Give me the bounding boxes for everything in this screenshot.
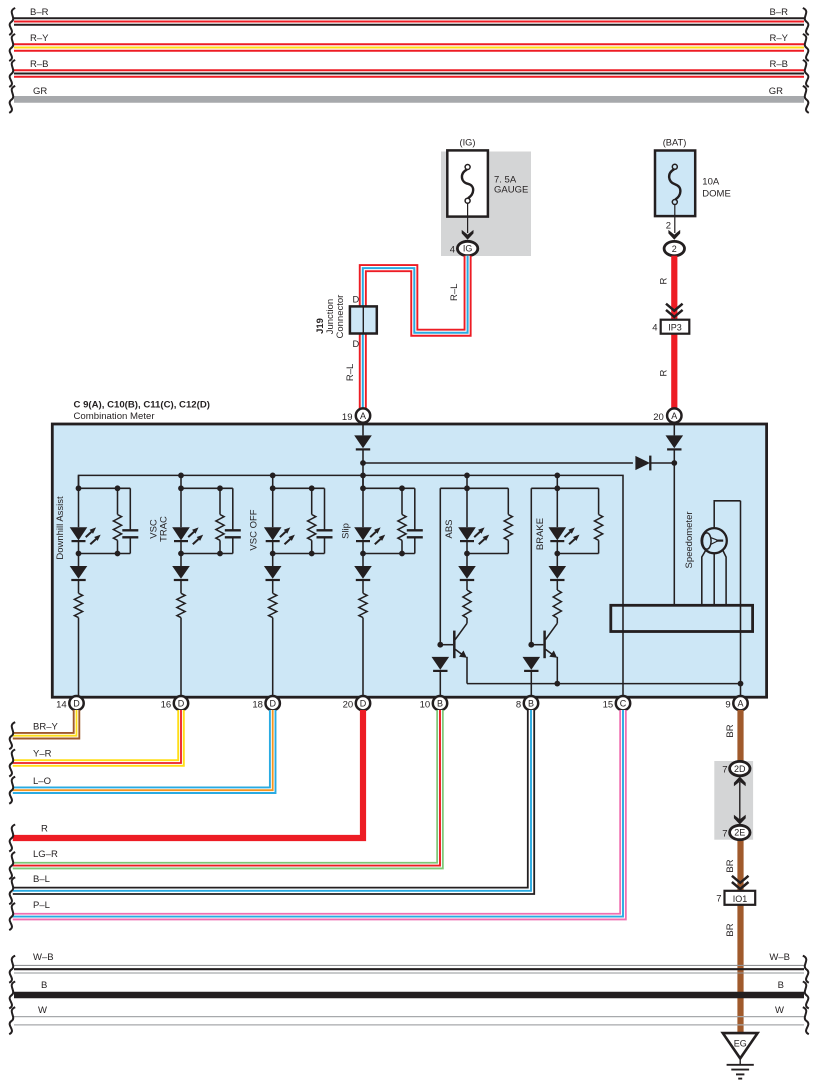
node VSC OFF tap [270,473,276,479]
svg-text:Downhill Assist: Downhill Assist [55,496,66,560]
svg-text:BRAKE: BRAKE [535,518,546,550]
pin 14 (D) [69,696,83,710]
wire B-L [13,710,531,891]
wire pin19 to bus [362,423,364,435]
connector IO1 pin 7 [725,891,756,905]
svg-text:7: 7 [722,829,727,840]
svg-text:BR: BR [725,923,736,936]
node pin9 emitter join [738,681,744,687]
indicator branch VSC TRAC [172,475,241,697]
connector IG pin 4 [457,241,477,255]
svg-text:IP3: IP3 [668,323,682,333]
svg-text:BR: BR [725,724,736,737]
wire BR from pin 9 to ground [737,710,743,1034]
diode below BRAKE base [523,657,541,671]
wire fuse to connector 2 [674,205,676,234]
wire W [14,1017,804,1025]
wire diode OR bus [363,462,633,464]
pin 15 (C) [616,696,630,710]
node pin19 tap [360,473,366,479]
svg-text:A: A [671,411,677,421]
ground EG [723,1033,758,1058]
base junction [437,642,443,648]
svg-text:2: 2 [666,221,671,232]
svg-text:B–R: B–R [770,7,789,18]
svg-text:BR–Y: BR–Y [33,721,58,732]
wire R-L from IG to pin 19 [363,256,468,409]
svg-text:(BAT): (BAT) [663,138,687,148]
speedometer wiring loop [714,501,740,528]
pin 20 (A) [667,408,681,422]
wire to pin 9 [740,501,742,697]
speedometer driver block [611,605,753,631]
svg-text:2E: 2E [734,828,745,838]
indicator branch Downhill Assist [70,475,139,697]
svg-text:D: D [352,295,359,305]
arrow into connector 2 [668,230,680,240]
pin 18 (D) [266,696,280,710]
node ABS tap [464,473,470,479]
wire L-O [13,710,273,790]
node on pin19 branch [360,460,366,466]
svg-text:10: 10 [420,700,431,711]
svg-text:EG: EG [734,1038,747,1048]
svg-text:D: D [360,698,367,708]
speedometer gauge [702,528,727,553]
svg-text:8: 8 [516,700,521,711]
wire R [13,710,363,838]
svg-text:(IG): (IG) [459,138,475,148]
node VSC TRAC tap [178,473,184,479]
ground symbol [727,1058,754,1078]
connector 2D-2E pass through block [714,761,753,840]
wire W-B [14,965,804,973]
svg-text:20: 20 [653,412,664,423]
svg-text:D: D [269,698,276,708]
speedometer leads [702,551,706,606]
node pin20 branch [671,460,677,466]
svg-text:L–O: L–O [33,776,51,787]
fuse 10A DOME holder [655,151,695,217]
connector 2D pin 7 [730,761,750,775]
wire BR-Y [13,710,77,736]
wire P-L [13,710,623,917]
svg-text:VSC OFF: VSC OFF [248,509,259,550]
svg-text:10A: 10A [702,177,720,188]
indicator branch Slip [354,475,423,697]
svg-text:R–L: R–L [345,364,356,381]
svg-text:R–Y: R–Y [770,33,789,44]
svg-text:A: A [737,698,743,708]
chevron arrows into IO1 [732,876,749,889]
connector IP3 pin 4 [661,320,690,334]
svg-text:Slip: Slip [341,523,352,539]
svg-text:IO1: IO1 [733,894,748,904]
top wire break squiggles [9,8,15,35]
node BRAKE emitter [554,681,560,687]
svg-text:A: A [360,411,366,421]
svg-text:19: 19 [342,412,353,423]
svg-text:W–B: W–B [769,952,790,963]
pin 8 (B) [524,696,538,710]
base junction [528,642,534,648]
svg-text:R: R [41,824,48,835]
wire R-B [14,69,804,77]
svg-text:18: 18 [252,700,263,711]
svg-text:B: B [41,980,47,991]
svg-text:IG: IG [463,244,473,254]
svg-text:2: 2 [672,244,677,254]
junction connector J19 [350,306,377,333]
connector 2E pin 7 [730,825,750,839]
pin 16 (D) [174,696,188,710]
connector 2 [664,241,684,255]
indicator branch VSC OFF [264,475,333,697]
pin 10 (B) [433,696,447,710]
chevron arrows into IP3 [666,304,683,317]
svg-text:GAUGE: GAUGE [494,185,528,196]
svg-text:B: B [437,698,443,708]
svg-text:C: C [620,698,627,708]
wire GR [14,96,804,103]
svg-text:B–R: B–R [30,7,49,18]
svg-text:R: R [658,369,669,376]
svg-text:Speedometer: Speedometer [684,511,695,568]
wire R from connector 2 to pin 20 [671,256,677,409]
svg-text:C 9(A), C10(B), C11(C), C12(D): C 9(A), C10(B), C11(C), C12(D) [74,400,210,411]
svg-text:R–B: R–B [30,59,48,70]
wire pin 20A down [673,423,675,435]
svg-text:DOME: DOME [702,189,731,200]
combination meter C9/C10/C11/C12 box [52,424,766,697]
svg-text:R: R [658,277,669,284]
svg-text:20: 20 [343,700,354,711]
wire fuse to IG connector [467,203,469,233]
svg-text:LG–R: LG–R [33,849,58,860]
wire B [14,992,804,999]
emitter bus to pin 9 [467,683,741,685]
diode below ABS base [432,657,450,671]
svg-text:Y–R: Y–R [33,749,52,760]
double arrow between 2D and 2E [739,782,741,820]
node BRAKE tap [554,473,560,479]
wire Y-R [13,710,181,763]
svg-text:9: 9 [725,700,730,711]
svg-text:R–B: R–B [770,59,788,70]
wire B-R [14,17,804,25]
fuse F2 10A DOME [669,164,680,204]
diode D2 below pin 20 [666,435,684,449]
svg-text:B: B [528,698,534,708]
svg-text:TRAC: TRAC [159,516,170,542]
svg-text:4: 4 [652,323,657,334]
svg-text:W: W [775,1005,784,1016]
wire LG-R [13,710,440,866]
svg-text:Connector: Connector [335,295,346,339]
svg-text:7: 7 [716,894,721,905]
pin 20 (D) [356,696,370,710]
svg-text:4: 4 [450,244,455,255]
svg-text:D: D [352,339,359,349]
svg-text:R–Y: R–Y [30,33,49,44]
diode D1 below pin 19 [354,435,372,449]
svg-text:14: 14 [56,700,67,711]
ground wire squiggles [9,956,15,983]
indicator branch BRAKE [523,475,603,697]
svg-text:D: D [178,698,185,708]
transistor ABS driver [455,623,467,640]
svg-text:15: 15 [603,700,614,711]
svg-text:ABS: ABS [444,519,455,538]
svg-text:W: W [38,1005,47,1016]
indicator branch ABS [432,475,513,697]
svg-text:Combination Meter: Combination Meter [74,411,156,422]
svg-text:GR: GR [33,86,47,97]
svg-text:B: B [778,980,784,991]
wire R-Y [14,43,804,51]
arrow into IG [462,230,474,240]
pin 19 (A) [356,408,370,422]
svg-text:16: 16 [161,700,172,711]
transistor BRAKE driver [545,623,557,640]
svg-text:B–L: B–L [33,874,50,885]
svg-text:BR: BR [725,859,736,872]
svg-text:7: 7 [722,765,727,776]
svg-text:2D: 2D [734,764,746,774]
svg-text:P–L: P–L [33,900,50,911]
svg-text:W–B: W–B [33,952,54,963]
pin 9 (A) [733,696,747,710]
svg-text:GR: GR [769,86,783,97]
fuse 7.5A GAUGE shaded block [441,152,531,257]
fuse F1 7.5A GAUGE [447,150,488,216]
diode D3 horizontal [635,456,650,471]
svg-text:R–L: R–L [449,284,460,301]
svg-text:D: D [73,698,80,708]
main bus from indicators to pin 15 [79,475,624,697]
